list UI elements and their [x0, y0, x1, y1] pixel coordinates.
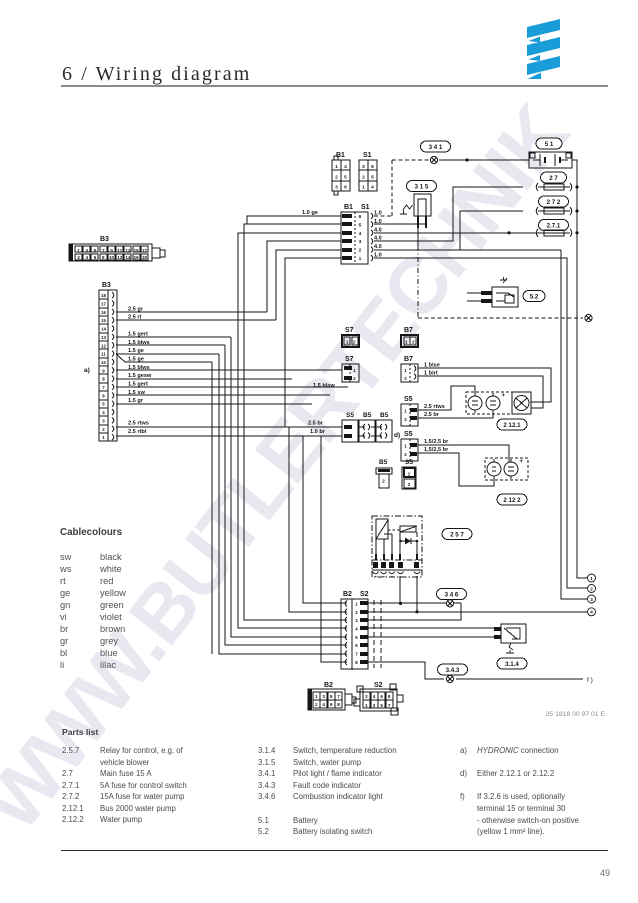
- svg-text:5: 5: [359, 222, 362, 228]
- connector B3 (18-pin, pin side): [84, 282, 117, 441]
- label 2.5.7: [442, 529, 472, 540]
- svg-text:3 4 1: 3 4 1: [429, 144, 443, 151]
- S1 table: [359, 152, 377, 191]
- svg-text:2 12 2: 2 12 2: [503, 497, 521, 504]
- svg-text:12: 12: [117, 255, 123, 260]
- svg-text:2.5 rtbl: 2.5 rtbl: [128, 429, 147, 435]
- wire 2.5 br: [418, 410, 493, 418]
- svg-text:1: 1: [365, 703, 368, 708]
- wire 1.5 ge: [116, 353, 219, 355]
- wire to fuse 2.7: [374, 187, 523, 241]
- svg-text:2: 2: [359, 248, 362, 254]
- wire to terminal 3: [561, 250, 588, 599]
- wire 1.5 sw: [116, 394, 330, 396]
- svg-text:B5: B5: [363, 412, 372, 419]
- wire 1 birt: [418, 376, 543, 408]
- svg-text:6: 6: [94, 255, 97, 260]
- parts list: [0, 0, 638, 1]
- svg-text:d): d): [394, 432, 400, 439]
- wire (dashed) to 3.4.1 line: [374, 215, 392, 217]
- svg-text:2: 2: [382, 479, 385, 485]
- svg-text:1.5 blsw: 1.5 blsw: [313, 383, 335, 389]
- svg-text:8: 8: [337, 702, 340, 707]
- svg-text:10: 10: [109, 255, 115, 260]
- svg-text:6: 6: [359, 214, 362, 220]
- svg-text:7: 7: [355, 652, 358, 657]
- svg-text:1: 1: [315, 694, 318, 699]
- svg-text:15: 15: [134, 248, 140, 253]
- connector B3 (horizontal plug view): [69, 236, 165, 261]
- svg-text:4: 4: [355, 626, 358, 631]
- svg-text:13: 13: [101, 335, 106, 340]
- svg-text:2.7.1: 2.7.1: [547, 223, 561, 230]
- svg-text:1 birt: 1 birt: [424, 371, 438, 377]
- svg-text:1.5 ge: 1.5 ge: [128, 356, 144, 362]
- svg-text:7: 7: [102, 385, 105, 390]
- svg-text:2: 2: [404, 417, 407, 422]
- svg-text:1.5/2.5 br: 1.5/2.5 br: [424, 439, 449, 445]
- wire 2.5 rtws: [116, 426, 342, 428]
- svg-text:11: 11: [101, 352, 106, 357]
- svg-text:3.1.4: 3.1.4: [505, 661, 519, 668]
- wire 1,5/2,5 br: [418, 453, 494, 486]
- svg-text:6: 6: [344, 185, 347, 191]
- wire to switch 3.1.5: [374, 223, 426, 225]
- dashed line to terminal S: [418, 317, 583, 319]
- svg-text:10: 10: [101, 360, 106, 365]
- relay output wires: [399, 577, 401, 603]
- svg-text:a): a): [84, 367, 90, 374]
- indicator 3.4.6: [437, 589, 467, 600]
- connector pair B2/S2: [341, 591, 369, 670]
- svg-text:7: 7: [337, 694, 340, 699]
- svg-text:1: 1: [590, 576, 593, 581]
- wire 2.5 rt: [116, 319, 276, 321]
- indicator 3.4.1: [430, 156, 437, 163]
- svg-text:13: 13: [125, 248, 131, 253]
- svg-text:17: 17: [142, 248, 148, 253]
- svg-text:8: 8: [388, 694, 391, 699]
- svg-text:2 7 2: 2 7 2: [547, 199, 561, 206]
- label 5.1: [536, 138, 562, 149]
- svg-text:8: 8: [102, 255, 105, 260]
- svg-text:6: 6: [380, 694, 383, 699]
- svg-text:2: 2: [362, 174, 365, 180]
- svg-text:4: 4: [344, 164, 347, 170]
- wire to fuse 2.7.2: [374, 249, 561, 251]
- svg-text:5 1: 5 1: [545, 141, 554, 148]
- wire pin2 to terminal 4: [368, 611, 587, 613]
- dashed supply line: [392, 159, 429, 161]
- svg-text:+: +: [502, 393, 506, 399]
- svg-text:3.4.3: 3.4.3: [446, 667, 460, 674]
- connector S5 (alternative d): [401, 431, 418, 461]
- label 2.12.2: [497, 494, 527, 505]
- svg-text:9: 9: [102, 368, 105, 373]
- wire pin8 to 3.4.3: [368, 662, 444, 679]
- svg-text:1.5 gert: 1.5 gert: [128, 331, 148, 337]
- wire 1.5 gr: [116, 403, 312, 405]
- svg-text:3 4 6: 3 4 6: [445, 592, 459, 599]
- connector pair B1/S1: [341, 204, 373, 264]
- svg-text:5: 5: [355, 635, 358, 640]
- svg-text:S5: S5: [404, 431, 413, 438]
- label 5.2: [523, 291, 545, 302]
- fuse 2.7.2: [536, 207, 538, 215]
- svg-text:3: 3: [86, 248, 89, 253]
- label 2.7.2: [539, 196, 569, 207]
- relay 5.2: [492, 277, 518, 307]
- svg-text:6: 6: [371, 164, 374, 170]
- svg-text:2: 2: [408, 482, 411, 488]
- svg-text:1.5 sw: 1.5 sw: [128, 390, 145, 396]
- svg-text:S2: S2: [374, 682, 383, 689]
- svg-text:4.0: 4.0: [374, 227, 382, 233]
- svg-text:1.5 blws: 1.5 blws: [128, 365, 150, 371]
- svg-text:1: 1: [359, 256, 362, 262]
- svg-text:B7: B7: [404, 356, 413, 363]
- svg-text:2: 2: [355, 610, 358, 615]
- flame indicator lamp: [512, 392, 531, 414]
- S2 mating dashes: [373, 600, 375, 668]
- svg-text:4: 4: [359, 231, 362, 237]
- indicator 3.4.3: [446, 675, 453, 682]
- svg-text:3: 3: [359, 239, 362, 245]
- svg-text:6: 6: [330, 702, 333, 707]
- wire 1.5 gesw: [116, 378, 292, 380]
- header rule: [61, 85, 608, 87]
- svg-text:3: 3: [335, 185, 338, 191]
- svg-text:2: 2: [365, 694, 368, 699]
- wire 1.5/2.5 br: [418, 445, 509, 462]
- dashed line from switch down: [417, 228, 419, 246]
- svg-text:8: 8: [355, 660, 358, 665]
- svg-text:B7: B7: [404, 327, 413, 334]
- svg-text:3: 3: [373, 703, 376, 708]
- wire battery to bus: [572, 160, 588, 578]
- svg-text:3 1 5: 3 1 5: [415, 184, 429, 191]
- wire to terminal 2: [374, 258, 588, 588]
- svg-text:5: 5: [380, 703, 383, 708]
- connector S7: [313, 356, 359, 389]
- svg-text:1: 1: [346, 340, 349, 346]
- svg-text:7: 7: [102, 248, 105, 253]
- svg-text:2.5 br: 2.5 br: [424, 412, 440, 418]
- svg-text:2 5 7: 2 5 7: [450, 532, 464, 539]
- svg-text:2: 2: [353, 340, 356, 346]
- wire nest to B2: [244, 224, 344, 620]
- label 2.12.1: [497, 419, 527, 430]
- svg-text:4.0: 4.0: [374, 244, 382, 250]
- label 3.1.5: [407, 181, 437, 192]
- water pump 2.12.1: [466, 392, 512, 414]
- svg-text:2.5 br: 2.5 br: [308, 421, 324, 427]
- Eberspaecher logo: [527, 19, 560, 38]
- svg-text:B5: B5: [380, 412, 389, 419]
- wire 1.5 ge (branch): [116, 354, 125, 362]
- svg-text:1,5/2,5 br: 1,5/2,5 br: [424, 447, 449, 453]
- svg-text:2 7: 2 7: [549, 175, 558, 182]
- svg-text:2: 2: [335, 174, 338, 180]
- wire 1.0 ge: [247, 216, 341, 224]
- svg-text:2: 2: [315, 702, 318, 707]
- svg-text:6 / Wiring diagram: 6 / Wiring diagram: [62, 63, 251, 85]
- svg-text:S1: S1: [361, 204, 370, 211]
- svg-text:S5: S5: [404, 396, 413, 403]
- svg-text:4: 4: [102, 410, 105, 415]
- svg-text:3: 3: [362, 164, 365, 170]
- svg-text:5: 5: [371, 174, 374, 180]
- wire 2.5 gr: [116, 311, 267, 313]
- wires pins 4,5 to switch 3.1.4: [368, 627, 494, 629]
- svg-text:4: 4: [322, 702, 325, 707]
- svg-text:6: 6: [355, 643, 358, 648]
- svg-text:2.5 rtws: 2.5 rtws: [128, 421, 149, 427]
- svg-text:S7: S7: [345, 327, 354, 334]
- switch 3.1.4: [494, 624, 526, 653]
- svg-text:S5: S5: [346, 412, 354, 419]
- svg-text:1: 1: [77, 248, 80, 253]
- svg-text:1.5 gesw: 1.5 gesw: [128, 373, 152, 379]
- connector S2 (plug view): [354, 682, 403, 715]
- svg-text:S2: S2: [360, 591, 369, 598]
- svg-text:1.5 ge: 1.5 ge: [128, 348, 144, 354]
- terminals 1-4: [588, 574, 596, 582]
- svg-text:2.5 rt: 2.5 rt: [128, 315, 142, 321]
- relay 2.5.7 (control relay): [372, 516, 422, 577]
- wire 1.5 blws to S7: [116, 369, 342, 371]
- svg-text:3: 3: [590, 597, 593, 602]
- svg-text:9: 9: [110, 248, 113, 253]
- water pump 2.12.2: [485, 458, 528, 480]
- wire 2.5 rtws: [418, 386, 475, 410]
- svg-text:1.0 ge: 1.0 ge: [302, 210, 318, 216]
- svg-text:S5: S5: [405, 459, 413, 466]
- svg-text:2: 2: [77, 255, 80, 260]
- svg-text:4: 4: [590, 610, 593, 615]
- plug S5: [402, 459, 416, 489]
- svg-text:2: 2: [404, 452, 407, 457]
- svg-text:5.2: 5.2: [530, 294, 539, 301]
- svg-text:12: 12: [101, 343, 106, 348]
- plug B5: [376, 459, 392, 488]
- svg-text:4: 4: [371, 185, 374, 191]
- svg-text:16: 16: [101, 310, 106, 315]
- svg-text:1.5 blws: 1.5 blws: [128, 340, 150, 346]
- label 3.1.4: [497, 658, 527, 669]
- fuse 2.7.1: [536, 229, 538, 237]
- label 2.7.1: [539, 220, 569, 231]
- svg-text:2: 2: [102, 427, 105, 432]
- svg-text:B3: B3: [102, 282, 111, 289]
- svg-text:2: 2: [590, 586, 593, 591]
- svg-text:B2: B2: [324, 682, 333, 689]
- svg-text:B1: B1: [344, 204, 353, 211]
- svg-text:4: 4: [373, 694, 376, 699]
- svg-text:B5: B5: [379, 459, 388, 466]
- svg-text:S7: S7: [345, 356, 354, 363]
- svg-text:14: 14: [125, 255, 131, 260]
- wire 1.5 gert: [116, 386, 348, 388]
- svg-text:1: 1: [404, 444, 407, 449]
- svg-text:5: 5: [94, 248, 97, 253]
- svg-text:16: 16: [134, 255, 140, 260]
- connector S5: [401, 396, 418, 426]
- switch 3.1.5: [400, 194, 431, 228]
- wire verticals from B3 rows down to B2: [231, 337, 344, 637]
- svg-text:1 blse: 1 blse: [424, 363, 440, 369]
- svg-text:17: 17: [101, 302, 106, 307]
- svg-text:6: 6: [102, 393, 105, 398]
- svg-text:3: 3: [322, 694, 325, 699]
- svg-text:1: 1: [404, 409, 407, 414]
- wire 1.5 gert: [116, 336, 231, 338]
- svg-text:14: 14: [101, 327, 106, 332]
- label 3.4.3: [438, 664, 468, 675]
- label 3.4.1: [421, 141, 451, 152]
- svg-text:1: 1: [335, 164, 338, 170]
- svg-text:25 1818 00 97 01 E: 25 1818 00 97 01 E: [546, 711, 606, 718]
- svg-text:11: 11: [117, 248, 122, 253]
- cable colours legend: [60, 527, 126, 671]
- svg-text:15: 15: [101, 318, 106, 323]
- svg-text:3: 3: [355, 618, 358, 623]
- fuse 2.7: [536, 183, 538, 191]
- B1 table: [332, 152, 350, 195]
- svg-text:2.5 rtws: 2.5 rtws: [424, 404, 445, 410]
- wire 1.5 blws: [116, 344, 225, 346]
- svg-text:5: 5: [102, 402, 105, 407]
- svg-text:18: 18: [142, 255, 148, 260]
- svg-text:7: 7: [388, 703, 391, 708]
- svg-text:18: 18: [101, 293, 106, 298]
- wire pin1 to 3.4.6: [368, 602, 461, 604]
- svg-text:f ): f ): [587, 677, 593, 684]
- svg-text:2: 2: [412, 340, 415, 346]
- wire taps to B2 pins 1,2,8: [289, 427, 344, 612]
- svg-text:1.5 gert: 1.5 gert: [128, 382, 148, 388]
- wires to relay 5.2: [467, 292, 481, 294]
- wire 1 blse: [418, 368, 551, 402]
- svg-text:1: 1: [408, 472, 411, 478]
- svg-text:B2: B2: [343, 591, 352, 598]
- connector B2 (plug view): [308, 682, 356, 710]
- svg-text:1.5 gr: 1.5 gr: [128, 398, 144, 404]
- svg-text:S1: S1: [363, 152, 372, 159]
- svg-text:5: 5: [344, 174, 347, 180]
- wire 2.5 rtbl: [116, 435, 342, 437]
- svg-text:1: 1: [355, 601, 358, 606]
- wire to battery: [439, 159, 529, 161]
- svg-text:1.0 br: 1.0 br: [310, 429, 326, 435]
- connector group S5 B5 B5: [342, 412, 400, 442]
- svg-text:1: 1: [362, 185, 365, 191]
- svg-text:3: 3: [102, 418, 105, 423]
- svg-text:4: 4: [86, 255, 89, 260]
- battery 5.1: [529, 152, 572, 168]
- wire to fuse 2.7.1: [374, 232, 509, 234]
- connector B7: [401, 356, 418, 382]
- wire to terminal f: [456, 678, 583, 680]
- svg-text:8: 8: [102, 377, 105, 382]
- svg-text:2: 2: [404, 376, 407, 381]
- svg-text:5: 5: [330, 694, 333, 699]
- svg-text:1: 1: [102, 435, 105, 440]
- svg-text:2 12.1: 2 12.1: [503, 422, 521, 429]
- svg-text:1: 1: [405, 340, 408, 346]
- svg-text:+: +: [520, 459, 524, 465]
- label 2.7: [541, 172, 567, 183]
- svg-text:B3: B3: [100, 236, 109, 243]
- svg-text:2.5 gr: 2.5 gr: [128, 306, 144, 312]
